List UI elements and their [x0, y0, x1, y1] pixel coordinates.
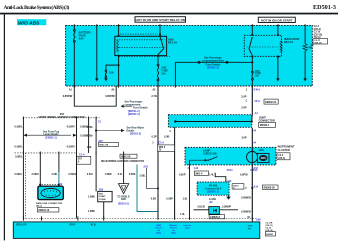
label: LAMP CHECK [203, 150, 217, 156]
ABS relay coil winding [117, 40, 119, 52]
svg-text:DATA LINK CONNECTOR: DATA LINK CONNECTOR [36, 202, 62, 205]
wire with arrow (to other page) [95, 25, 99, 81]
resistor [303, 44, 307, 51]
svg-text:2.08L: 2.08L [139, 174, 146, 177]
svg-text:0.5W/V: 0.5W/V [68, 173, 76, 176]
svg-text:0.85P/W: 0.85P/W [63, 95, 73, 98]
indicator relay switch blade [249, 37, 252, 56]
connector box EM305-8 [209, 215, 225, 219]
svg-text:0.3B: 0.3B [164, 135, 169, 138]
connector box EM306-1 [259, 122, 276, 127]
relay pins [118, 35, 161, 57]
svg-text:0.3P/B: 0.3P/B [240, 174, 248, 177]
wire: ABS warning feed (main) segment 1 [251, 86, 253, 115]
dashed actuator line inside ABS relay [117, 46, 165, 48]
svg-text:KLN: KLN [91, 225, 96, 227]
svg-text:0.65P: 0.65P [179, 173, 186, 176]
svg-text:[ED501-2]: [ED501-2] [130, 133, 141, 136]
warning lamp module box (cyan) [185, 147, 276, 165]
wire: branch to see-passenger note [175, 61, 253, 86]
ABS indicator icon [257, 153, 269, 162]
svg-text:[BD501-1]: [BD501-1] [207, 191, 218, 194]
svg-text:[4D]: [4D] [171, 232, 176, 235]
svg-text:M61-4: M61-4 [196, 172, 203, 175]
svg-text:HOT IN ON AND START RELAY ON: HOT IN ON AND START RELAY ON [136, 18, 185, 22]
svg-text:0.5W/V: 0.5W/V [67, 126, 76, 129]
left page border [4, 14, 5, 240]
connector box M02-2 [158, 145, 175, 152]
DLC dashed enclosure [39, 184, 60, 186]
indicator relay coil winding [280, 41, 282, 52]
svg-text:1.08W/P: 1.08W/P [222, 206, 232, 209]
svg-text:EM308-36: EM308-36 [264, 186, 276, 189]
wire: dlc column 2 [58, 153, 60, 172]
arrow below sub fuse [104, 77, 108, 81]
ABS relay box [115, 36, 167, 55]
svg-text:E07: E07 [78, 159, 83, 161]
connector box EM304-16 [37, 208, 59, 212]
svg-text:G08: G08 [256, 219, 261, 222]
svg-text:0.58W/B: 0.58W/B [241, 197, 251, 200]
svg-text:0.58W/B: 0.58W/B [241, 211, 251, 214]
svg-text:5.08P: 5.08P [166, 197, 173, 200]
svg-text:(CB-17): (CB-17) [314, 42, 322, 44]
dashed connector line (bottom) [23, 218, 256, 220]
svg-text:1.8L: 1.8L [183, 197, 188, 200]
joint connector bus wire [175, 121, 251, 123]
svg-text:5W: 5W [308, 46, 312, 49]
svg-text:[ED501-2]: [ED501-2] [118, 204, 129, 206]
wire labels row [15, 173, 147, 177]
wire: U link below relay block [74, 86, 116, 106]
wire: indicator relay coil feed [277, 25, 279, 35]
node: bus right [251, 120, 253, 122]
svg-text:HOT IN ON OR START: HOT IN ON OR START [261, 18, 293, 22]
svg-text:3.0P: 3.0P [241, 136, 246, 139]
svg-text:FRONT WIRING HARNESS CONNECTOR: FRONT WIRING HARNESS CONNECTOR [38, 116, 84, 119]
svg-text:J/C: J/C [209, 202, 213, 204]
connector box E073 [232, 184, 244, 190]
svg-text:0.85P/W: 0.85P/W [105, 95, 115, 98]
svg-text:REAR WIRING HARNESS CONNECTOR: REAR WIRING HARNESS CONNECTOR [101, 160, 144, 163]
label: ABS RELAY [168, 37, 177, 44]
connector box M06-2 [120, 154, 137, 158]
pin ticks on bottom connector [23, 216, 103, 220]
svg-text:30A: 30A [79, 37, 84, 41]
svg-text:2.7Ω: 2.7Ω [151, 95, 156, 98]
svg-text:[4D]: [4D] [156, 232, 161, 235]
svg-text:[2C]: [2C] [185, 228, 190, 230]
svg-text:0.5W/L: 0.5W/L [15, 145, 24, 148]
wire: main feed below ABS fuse (long) [157, 86, 159, 219]
note: See Passenger compartment Fuse Details [202, 57, 225, 70]
svg-text:1.4L: 1.4L [209, 173, 214, 176]
label: JOINT CONNECTOR [259, 117, 275, 123]
svg-text:0.5W/V: 0.5W/V [67, 145, 76, 148]
connector box C2-17 [313, 39, 328, 45]
connector box EM308-36 [262, 185, 278, 189]
svg-text:0.08Gr: 0.08Gr [15, 173, 23, 176]
inner dashed box top edge [119, 56, 170, 58]
wire: branch to main (gray) [147, 168, 158, 189]
in-line connector dashed line (lower) [15, 152, 77, 154]
svg-text:K-B12: K-B12 [250, 169, 258, 172]
wire below ABS fuse [157, 81, 159, 86]
wire below relay pin 2 [118, 56, 120, 86]
wire: left column 3 [95, 118, 97, 192]
pin ticks at block bottom edge [74, 84, 252, 87]
ground bus bar (cyan) [13, 222, 259, 239]
svg-text:CHECK SW.: CHECK SW. [203, 153, 217, 156]
bus link group 3 [184, 224, 192, 230]
relay box block (large cyan) [66, 25, 313, 86]
svg-text:3.8L/B: 3.8L/B [197, 206, 205, 209]
connector box C2-4 [277, 153, 290, 160]
indicator relay box [244, 35, 281, 56]
svg-text:[ED501-3]: [ED501-3] [128, 113, 140, 116]
svg-text:E-06Ω: E-06Ω [209, 199, 216, 201]
wire through joint connector (right) [251, 115, 254, 122]
wire: relay coil feed [118, 25, 120, 36]
svg-text:0.3B: 0.3B [151, 197, 156, 200]
bus link group 2 [170, 225, 178, 235]
svg-text:3.0P: 3.0P [241, 107, 246, 110]
title rule [0, 13, 338, 15]
svg-text:2.08L: 2.08L [51, 173, 58, 176]
svg-text:EM301: EM301 [266, 234, 274, 236]
svg-text:GND: GND [121, 199, 126, 201]
svg-text:1.0L: 1.0L [180, 213, 185, 216]
svg-text:A14: A14 [254, 185, 259, 188]
arrow below module box [226, 195, 231, 199]
data link connector (DLC) [38, 186, 63, 199]
svg-text:(CB-4): (CB-4) [278, 157, 285, 160]
bus link group 1 [155, 224, 162, 235]
header box 2: HOT IN ON OR START [258, 17, 295, 22]
dashed harness border (left vertical) [25, 153, 27, 219]
svg-text:EM306-1: EM306-1 [260, 124, 270, 127]
wire: left column 1 [22, 118, 24, 219]
label: 10A [255, 70, 262, 78]
svg-text:(DLC): (DLC) [36, 205, 42, 207]
label: INDICATOR RELAY [284, 37, 299, 44]
fusible link (battery) [73, 29, 75, 42]
wire below indicator relay coil with arrow [276, 56, 280, 81]
wire: cross link with arrows [23, 134, 76, 137]
ground: chassis arrow [249, 219, 255, 229]
svg-text:ED501-3: ED501-3 [313, 4, 336, 11]
svg-text:Lamp Details: Lamp Details [44, 133, 60, 136]
svg-text:GR-P: GR-P [69, 225, 75, 227]
node: junction on column 3 [95, 129, 97, 131]
header box 1: HOT IN ON AND START [135, 17, 186, 23]
wire branch to sub fuse [106, 65, 119, 70]
svg-text:3.0P: 3.0P [241, 96, 246, 99]
W/O ABS badge [17, 19, 46, 26]
svg-text:C: C [246, 100, 248, 103]
svg-text:0.3P: 0.3P [152, 135, 157, 138]
note: See Rear Window Defogger [96, 126, 144, 135]
dashed actuator line inside indicator relay [247, 46, 279, 48]
svg-text:EM332-24: EM332-24 [265, 101, 277, 104]
svg-text:A18: A18 [143, 166, 148, 169]
wire: from joint connector down [174, 127, 176, 218]
dashed link above ABS relay [120, 33, 158, 35]
wire below resistor with arrow [303, 51, 307, 82]
labels: instrument cluster pins (right of relay block) [314, 25, 323, 39]
node: bus left [174, 120, 176, 122]
joint connector block (cyan) [168, 115, 251, 128]
shield symbol (triangle) [118, 184, 128, 194]
svg-text:FR: FR [248, 228, 251, 230]
svg-text:CONN: CONN [99, 199, 106, 201]
pin ticks at block top edge [74, 24, 305, 27]
wire: lamp check output [189, 165, 191, 219]
sub fuse 10A [105, 70, 107, 78]
svg-text:E46-5: E46-5 [254, 88, 261, 91]
connector box EM301 [265, 232, 275, 236]
indicator relay pins [251, 34, 279, 58]
svg-text:[ED501-2]: [ED501-2] [207, 67, 219, 70]
wire: branch into connector module [215, 173, 226, 182]
svg-text:RELAY: RELAY [168, 41, 177, 45]
data link module box (cyan) [197, 182, 229, 195]
wire: resistor branch [304, 25, 306, 43]
bottom list labels [266, 222, 273, 232]
svg-text:1.08W: 1.08W [88, 195, 96, 198]
svg-text:A16: A16 [194, 167, 199, 170]
svg-text:1.08W: 1.08W [88, 210, 96, 213]
wire: relay contact feed [159, 25, 161, 36]
svg-text:[ED501-1]: [ED501-1] [45, 137, 56, 140]
wire: main below lamp [251, 165, 253, 219]
note: See Passenger compartment Fuse Details (left) [121, 101, 149, 116]
svg-text:C2-A: C2-A [79, 153, 85, 156]
fuse 10A (indicator) [251, 71, 253, 80]
svg-text:RELAY: RELAY [284, 40, 293, 44]
node: junction to EM308-36 [251, 187, 253, 189]
label: DATA LINK CONNECTOR (DLC) [36, 202, 62, 208]
dashed inner row (upper) [117, 39, 165, 41]
svg-text:0.5W/L: 0.5W/L [15, 126, 24, 129]
diode block (cyan) [209, 207, 220, 215]
wire: battery feed [73, 25, 75, 86]
wire out of diode [219, 209, 238, 211]
label: BATTERY FUSE 30A [79, 31, 92, 41]
ABS relay switch blade [158, 37, 164, 55]
svg-text:0.3L: 0.3L [87, 146, 92, 149]
connector box E05 [98, 191, 112, 201]
svg-text:1.08W: 1.08W [105, 173, 113, 176]
svg-text:0.5R/L: 0.5R/L [15, 155, 23, 158]
svg-text:GRY-LGR: GRY-LGR [16, 225, 27, 227]
svg-text:W/O ABS: W/O ABS [18, 20, 40, 26]
svg-text:C2-A: C2-A [158, 142, 164, 145]
label: TO SHIELD [117, 197, 130, 206]
in-line connector dashed line (upper) [23, 117, 100, 119]
svg-text:0.5Gr: 0.5Gr [87, 173, 93, 176]
wire: short column [88, 118, 90, 153]
wire into lamp (top) [251, 128, 253, 152]
connector box M61-4 [194, 171, 208, 175]
node: junction on contact feed [159, 33, 161, 35]
ABS warning lamp [247, 151, 258, 162]
pin tick right edge [311, 44, 314, 46]
svg-text:ABS: ABS [259, 149, 264, 152]
wire: relay output to ABS fuse [157, 57, 159, 65]
lamp check switch [190, 157, 218, 162]
pin ticks at inline connectors [23, 117, 252, 220]
svg-text:M06-2 M: M06-2 M [121, 156, 130, 158]
svg-text:C2-4: C2-4 [278, 154, 284, 157]
wire through lamp [251, 152, 253, 165]
shielded wire (teal) [137, 165, 158, 212]
svg-text:2.08Gr: 2.08Gr [32, 173, 40, 176]
wire into diode [194, 209, 209, 211]
svg-text:M06-1 M: M06-1 M [100, 145, 109, 147]
label: INSTRUMENT CLUSTER [278, 145, 295, 152]
svg-text:10A: 10A [255, 75, 260, 78]
svg-text:Anti-Lock Brake System (ABS) (: Anti-Lock Brake System (ABS) (3) [4, 4, 70, 11]
svg-text:ABS: ABS [261, 157, 266, 160]
node: junction [118, 64, 120, 66]
node: junction on main [157, 188, 159, 190]
label: ABS FUSE 10A [161, 66, 168, 75]
connector box M06 [99, 143, 119, 147]
wire: switch drop to box bottom [189, 160, 191, 165]
svg-text:CLUSTER: CLUSTER [278, 148, 290, 152]
svg-text:0.5R/L: 0.5R/L [129, 173, 137, 176]
ground bus pin labels [248, 225, 253, 230]
svg-text:15A: 15A [109, 71, 114, 74]
note: See Front Fog Lamps [43, 130, 60, 139]
wire: indicator relay contact feed [251, 25, 253, 35]
svg-text:compartment Wire: compartment Wire [202, 60, 225, 63]
ABS fuse 10A [157, 64, 159, 81]
svg-text:K014: K014 [227, 169, 233, 172]
svg-text:10A: 10A [161, 72, 166, 75]
svg-text:0.5L: 0.5L [118, 173, 123, 176]
svg-text:0.5Br: 0.5Br [87, 135, 93, 138]
wire below indicator fuse [251, 80, 253, 86]
svg-text:EM304-16: EM304-16 [39, 209, 50, 212]
svg-text:I/P-C: I/P-C [255, 100, 261, 103]
wire: dlc column 1 [39, 153, 41, 186]
svg-text:M02-2: M02-2 [159, 147, 166, 149]
connector box EM332-24 [264, 99, 278, 104]
wire: left column 2 [76, 118, 78, 219]
wire: indicator relay output to fuse [251, 56, 253, 71]
wire: shield column [123, 153, 125, 184]
svg-text:0.5Br: 0.5Br [87, 126, 93, 129]
connector box E07 [77, 156, 91, 164]
